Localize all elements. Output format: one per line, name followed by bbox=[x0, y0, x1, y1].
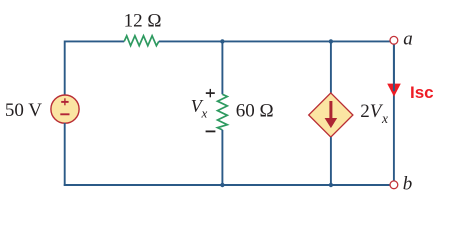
label minus of Vx bbox=[206, 130, 216, 132]
resistor 12 Ohm bbox=[124, 36, 159, 46]
svg-text:50 V: 50 V bbox=[5, 100, 42, 121]
svg-text:x: x bbox=[201, 106, 208, 121]
node bottom junction dependent source bbox=[329, 183, 333, 187]
wire bottom bbox=[64, 184, 390, 186]
wire right rail overlay segment bbox=[393, 44, 395, 91]
node top junction dependent source bbox=[329, 39, 333, 43]
resistor 60 Ohm bbox=[218, 94, 228, 130]
svg-text:2V: 2V bbox=[360, 101, 384, 122]
node bottom junction 60 Ohm bbox=[220, 183, 224, 187]
node top junction 60 Ohm bbox=[220, 39, 224, 43]
wire dependent source branch upper bbox=[330, 41, 332, 93]
wire top-right segment bbox=[159, 40, 390, 42]
terminal b bbox=[390, 181, 398, 189]
wire left rail lower bbox=[64, 123, 66, 186]
wire dependent source branch lower bbox=[330, 137, 332, 185]
svg-text:60 Ω: 60 Ω bbox=[236, 101, 274, 122]
svg-text:x: x bbox=[381, 111, 388, 126]
svg-text:b: b bbox=[403, 174, 413, 195]
dependent current source 2Vx bbox=[309, 93, 353, 137]
svg-text:12 Ω: 12 Ω bbox=[124, 10, 162, 31]
terminal a bbox=[390, 36, 398, 44]
wire left rail upper bbox=[64, 41, 66, 96]
label plus of Vx bbox=[209, 89, 211, 97]
svg-text:a: a bbox=[403, 29, 413, 50]
wire top-left segment bbox=[65, 40, 125, 42]
wire 60 Ohm branch upper bbox=[221, 41, 223, 94]
voltage source 50 V bbox=[51, 95, 79, 123]
Isc arrow bbox=[387, 84, 401, 97]
svg-text:Isc: Isc bbox=[410, 83, 434, 102]
wire 60 Ohm branch lower bbox=[221, 130, 223, 185]
wire right rail bbox=[393, 44, 395, 180]
